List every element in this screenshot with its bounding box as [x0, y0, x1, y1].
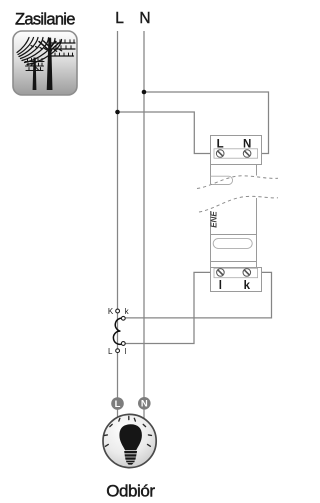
svg-text:k: k — [244, 280, 251, 292]
break wave 2 — [199, 196, 278, 212]
svg-text:N: N — [141, 399, 148, 410]
badge N — [138, 397, 151, 410]
wire N feed to meter — [144, 92, 269, 154]
break wave 1 — [197, 176, 278, 189]
meter body inner tab — [211, 176, 233, 184]
svg-text:l: l — [125, 347, 127, 356]
CT coil terminal l — [121, 342, 125, 346]
meter body outline — [211, 165, 257, 268]
wire k secondary — [125, 272, 272, 318]
svg-text:L: L — [217, 138, 224, 150]
CT node L — [116, 349, 120, 353]
svg-text:ENE: ENE — [210, 211, 219, 228]
svg-text:N: N — [243, 138, 251, 150]
junction L — [115, 110, 120, 115]
screw terminal k — [243, 269, 251, 277]
wire l secondary — [125, 272, 217, 343]
wire L feed to meter — [118, 112, 218, 154]
svg-text:Zasilanie: Zasilanie — [15, 10, 75, 28]
screw terminal l — [217, 269, 225, 277]
screw terminal L — [216, 150, 224, 158]
meter bottom terminal box — [211, 268, 262, 292]
meter U1 top terminal box — [211, 136, 262, 165]
badge L — [111, 397, 124, 410]
CT coil terminal k — [121, 316, 125, 320]
screw terminal N — [243, 150, 251, 158]
svg-text:k: k — [125, 307, 130, 316]
wire N stub below badge — [143, 408, 145, 420]
CT coil — [113, 318, 123, 344]
svg-text:N: N — [139, 10, 150, 27]
meter display section — [211, 235, 257, 262]
power grid icon — [13, 31, 77, 95]
junction N — [142, 90, 147, 95]
wire N vertical — [143, 31, 145, 398]
svg-text:Odbiór: Odbiór — [106, 482, 155, 501]
svg-text:K: K — [108, 307, 114, 316]
svg-text:L: L — [115, 10, 124, 27]
wire L stub below badge — [117, 408, 119, 420]
lamp load — [103, 414, 156, 467]
CT node K — [116, 309, 120, 313]
svg-text:l: l — [219, 280, 222, 292]
svg-text:L: L — [115, 399, 121, 410]
wire L vertical — [117, 31, 119, 398]
svg-text:L: L — [108, 347, 113, 356]
